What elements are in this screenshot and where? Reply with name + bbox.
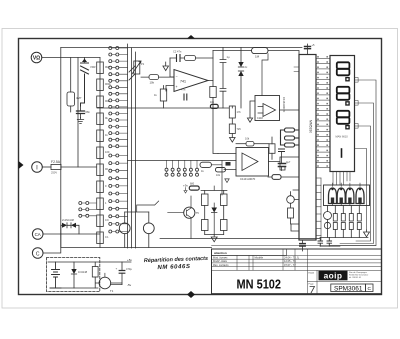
svg-text:9M: 9M	[105, 65, 109, 69]
wires resistor network	[201, 186, 227, 235]
svg-text:47n: 47n	[181, 88, 186, 92]
title block header label	[212, 249, 287, 256]
resistor R6 1k	[97, 130, 109, 142]
digit driver block	[324, 185, 370, 206]
resistor R9 9	[97, 181, 107, 193]
resistor R14 feedback	[185, 56, 214, 61]
svg-text:VΩ: VΩ	[33, 56, 40, 62]
terminal C	[32, 248, 43, 259]
decimal point 1	[346, 78, 349, 81]
frame centering mark left	[19, 161, 24, 169]
ground	[163, 62, 169, 71]
resistor R33	[210, 101, 218, 108]
resistor R11 0.9	[97, 215, 109, 227]
resistor R31	[221, 220, 228, 235]
svg-text:Etabli: Etabli	[309, 272, 315, 275]
diode D3	[211, 203, 217, 235]
svg-text:07.07 - 77: 07.07 - 77	[284, 263, 296, 267]
svg-text:+5v: +5v	[127, 258, 132, 262]
capacitor C8	[318, 238, 323, 247]
driver resistor pair 2	[341, 206, 345, 238]
op-amp U3 LH0042	[218, 148, 280, 182]
svg-text:+5v: +5v	[183, 184, 188, 188]
resistor R7 100	[97, 147, 110, 159]
terminal I	[32, 162, 43, 173]
driver resistor pair 1	[333, 206, 337, 238]
resistor R32	[92, 262, 98, 288]
resistor R34	[216, 168, 226, 178]
svg-text:-5v: -5v	[127, 283, 132, 287]
svg-text:7k5: 7k5	[237, 127, 242, 131]
svg-text:attention: attention	[214, 251, 227, 255]
mid ground bus	[160, 238, 320, 240]
resistor R2 9M	[97, 62, 109, 74]
svg-text:4M7: 4M7	[76, 96, 82, 100]
resistor R27	[200, 160, 222, 195]
resistor R24	[281, 138, 300, 147]
svg-text:VDR: VDR	[90, 65, 96, 69]
revision table lines	[212, 249, 382, 295]
svg-text:T1: T1	[110, 289, 114, 293]
svg-text:C: C	[367, 286, 371, 292]
diode D6	[61, 218, 79, 234]
wire terminal VΩ to divider	[42, 57, 100, 59]
display right pin wires	[212, 78, 377, 246]
svg-text:Modèle: Modèle	[255, 256, 264, 260]
svg-text:SPM3061: SPM3061	[334, 285, 363, 292]
decimal point 2	[346, 102, 349, 105]
diode D1	[238, 48, 243, 68]
display bottom pins	[333, 172, 350, 186]
svg-text:Rev. contacts: Rev. contacts	[213, 263, 229, 267]
svg-text:C118 A0070: C118 A0070	[282, 97, 286, 113]
svg-text:0.1: 0.1	[105, 235, 109, 239]
IC power pin decoupling	[307, 44, 309, 55]
svg-text:Modif. relais: Modif. relais	[213, 259, 228, 263]
resistor R16	[210, 81, 218, 154]
wire op-amp plus input	[166, 86, 174, 92]
svg-text:10k: 10k	[245, 137, 250, 141]
svg-text:C119 A0070: C119 A0070	[240, 177, 256, 181]
svg-text:1µ: 1µ	[227, 55, 230, 59]
capacitor C4	[220, 48, 230, 109]
driver transistor Q341	[337, 183, 345, 206]
resistor R5 9k	[97, 113, 109, 125]
svg-text:T5: T5	[196, 211, 200, 215]
capacitor C9	[320, 238, 340, 247]
title block outline	[212, 249, 382, 295]
decimal point 3	[346, 126, 349, 129]
ground	[230, 138, 236, 143]
title block right dividers	[308, 270, 382, 294]
resistor R22	[281, 128, 300, 138]
svg-text:C118: C118	[257, 117, 263, 120]
driver transistor Q332	[329, 183, 337, 206]
switch bus line 3	[135, 52, 137, 248]
svg-text:0.9: 0.9	[105, 218, 109, 222]
switch bus line 1	[127, 44, 129, 248]
resistor R1 4M7	[67, 58, 82, 113]
diode D4	[71, 262, 87, 288]
svg-text:17k: 17k	[237, 110, 242, 114]
divider resistor chain spine	[99, 58, 101, 248]
svg-text:24.04 - 75: 24.04 - 75	[284, 256, 296, 260]
driver resistor pair 3	[349, 206, 353, 238]
wire VΩ branch down	[77, 58, 79, 168]
rotary switch contacts upper bank	[109, 47, 128, 148]
resistor R35	[189, 183, 199, 191]
terminal CA	[32, 229, 43, 240]
wire C stub	[43, 234, 61, 253]
wire vertical common left bus	[60, 48, 62, 235]
op-amp U1 741	[174, 70, 208, 92]
svg-text:MM5330: MM5330	[309, 120, 313, 133]
resistor R17 1M feedback to IC	[213, 48, 299, 59]
drawing number box	[331, 284, 366, 292]
capacitor C7 470µ	[111, 262, 133, 285]
transistor Q7	[168, 196, 200, 239]
resistor R19	[229, 124, 241, 138]
resistor R8 90	[97, 164, 109, 176]
svg-text:10k: 10k	[150, 81, 155, 85]
IC left lower stubs	[291, 190, 299, 231]
terminal VΩ	[31, 52, 42, 63]
wire bottom bus to title block	[61, 234, 212, 248]
svg-text:MN 5102: MN 5102	[237, 278, 282, 292]
transistor Q6	[324, 206, 332, 238]
svg-text:250V: 250V	[51, 171, 57, 175]
switch bus line 2	[131, 48, 133, 248]
svg-text:F2.5A: F2.5A	[51, 160, 61, 164]
rotary switch contacts lower bank	[109, 154, 128, 233]
power section dashed enclosure	[47, 258, 100, 292]
capacitor C3	[181, 88, 187, 101]
power wires	[48, 262, 131, 288]
resistor R18	[229, 106, 241, 124]
capacitor C1	[77, 106, 91, 118]
digit 1	[337, 62, 350, 75]
IC right pin ladder	[316, 56, 330, 168]
IC lower right stubs	[316, 178, 321, 240]
wire feedback loop	[170, 51, 213, 81]
svg-text:1M: 1M	[255, 55, 260, 59]
capacitor C5	[279, 149, 285, 164]
frame centering mark bottom	[187, 291, 195, 298]
wire CA to divider	[43, 233, 100, 235]
svg-text:+: +	[116, 267, 118, 271]
ground	[211, 235, 217, 242]
battery B1	[50, 262, 61, 288]
IC left stubs upper	[294, 67, 299, 72]
svg-text:C2 47n: C2 47n	[173, 50, 182, 54]
svg-text:100: 100	[105, 150, 110, 154]
minus segment	[341, 149, 343, 157]
resistor R3 900k	[97, 79, 112, 91]
driver ground bus	[320, 237, 368, 239]
capacitor C2 feedback	[170, 50, 184, 62]
transistor Q8	[119, 212, 130, 248]
resistor R29	[221, 191, 228, 220]
wire transistor pair	[125, 201, 159, 212]
resistor R28	[202, 191, 209, 220]
ground small	[225, 179, 229, 183]
driver transistor Q349	[346, 183, 354, 206]
driver transistor Q360	[356, 183, 364, 206]
capacitor C6 4µ7	[279, 160, 291, 171]
wire analog bus	[97, 107, 229, 109]
switch wiper arrows	[129, 66, 135, 80]
junction blob	[226, 162, 231, 166]
diode D2	[238, 65, 248, 108]
wire top input bus	[61, 47, 302, 49]
svg-text:NM 6046S: NM 6046S	[157, 264, 190, 271]
handwritten note	[144, 256, 208, 271]
svg-text:68n: 68n	[86, 110, 91, 114]
resistor R23	[285, 136, 300, 140]
comparator U2	[247, 96, 299, 123]
transistor Q1	[287, 192, 299, 208]
svg-text:470µ: 470µ	[126, 267, 132, 271]
svg-text:Mod. bornes: Mod. bornes	[213, 256, 228, 260]
drawing frame border	[19, 39, 382, 295]
frame centering mark top	[187, 35, 195, 39]
transistor Q10 T1	[96, 273, 122, 293]
wire 1M to comparator	[262, 54, 268, 96]
svg-text:4µ7: 4µ7	[286, 160, 291, 164]
main IC U4	[299, 55, 316, 241]
fuse F1	[42, 160, 96, 175]
svg-text:tel. 208 41 41: tel. 208 41 41	[349, 276, 362, 279]
resistor R15	[154, 86, 167, 109]
svg-text:aoip: aoip	[324, 271, 343, 281]
capacitor C10 below IC	[300, 240, 305, 251]
svg-text:1N4148: 1N4148	[78, 270, 88, 274]
wire U3 output to IC	[280, 157, 299, 170]
svg-text:Page: Page	[309, 283, 315, 285]
svg-text:91300 Ste Geneviève: 91300 Ste Geneviève	[349, 274, 369, 277]
mid contact row	[165, 160, 199, 176]
resistor R10 1	[97, 198, 107, 210]
protection varistor network	[81, 58, 96, 107]
resistor R21	[269, 137, 275, 159]
ground	[364, 230, 370, 237]
resistor R4 90k	[97, 96, 110, 108]
svg-text:2x1N4148: 2x1N4148	[62, 218, 74, 222]
svg-text:−: −	[176, 75, 178, 79]
revision letter box	[366, 284, 374, 292]
label +5v arrow	[183, 184, 188, 194]
svg-text:C: C	[36, 252, 40, 258]
svg-text:741: 741	[180, 80, 186, 84]
resistor R25	[268, 175, 299, 180]
handwritten page number	[310, 287, 315, 294]
diode D5	[62, 223, 71, 228]
potentiometer P1	[132, 61, 145, 74]
aoip logo	[319, 271, 348, 281]
resistor R20	[236, 137, 269, 147]
rotary switch contacts shunt bank	[79, 202, 96, 218]
svg-text:CA: CA	[35, 232, 41, 237]
svg-text:MAN 6610: MAN 6610	[336, 135, 349, 139]
resistor R12 0.1	[97, 232, 109, 244]
svg-text:P1: P1	[141, 62, 145, 66]
aoip address	[349, 272, 369, 279]
driver resistor pair 4	[357, 206, 361, 238]
ground	[77, 118, 83, 124]
mid bus wire	[128, 159, 237, 161]
revision entries	[213, 256, 300, 267]
display module DIS1	[330, 56, 355, 172]
svg-text:12.05 - 76: 12.05 - 76	[284, 259, 296, 263]
resistor R30	[202, 220, 209, 235]
digit 3	[337, 111, 350, 124]
svg-text:680: 680	[190, 183, 195, 186]
transistor Q11	[324, 222, 330, 228]
transistor Q9	[143, 212, 154, 248]
svg-text:+: +	[176, 85, 178, 89]
digit 2	[337, 87, 350, 100]
resistor R13	[141, 75, 174, 85]
resistor R26	[288, 208, 300, 224]
